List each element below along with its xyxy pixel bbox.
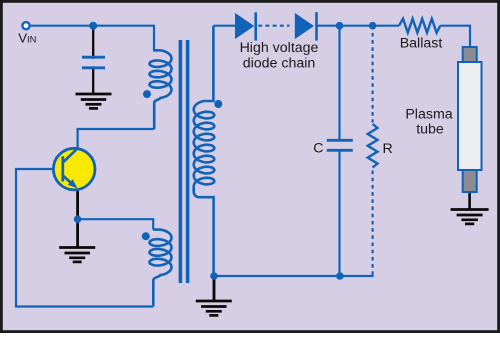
svg-text:VIN: VIN (18, 31, 36, 46)
svg-text:High voltage: High voltage (240, 40, 319, 56)
svg-text:diode chain: diode chain (243, 56, 316, 72)
svg-text:Ballast: Ballast (400, 36, 443, 52)
svg-text:R: R (383, 141, 393, 157)
svg-text:C: C (313, 140, 323, 156)
svg-text:tube: tube (416, 122, 444, 138)
svg-text:Plasma: Plasma (405, 107, 452, 123)
